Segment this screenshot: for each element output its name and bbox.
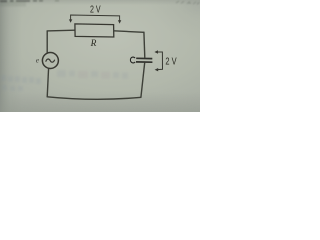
paper background — [0, 0, 200, 112]
wire: top rail right segment to corner — [114, 31, 144, 33]
bleed-through text bottom-left — [1, 75, 41, 91]
wire: right vertical lower — [141, 63, 145, 98]
top-right faint handwriting — [176, 1, 200, 4]
capacitor C bottom plate — [136, 61, 152, 63]
capacitor C top plate — [136, 57, 152, 59]
wire: top-left vertical (source to top rail) — [46, 31, 48, 54]
arrowhead down right — [118, 20, 121, 23]
wire: right vertical upper (to capacitor) — [143, 32, 146, 58]
arrowhead left bottom — [155, 68, 159, 71]
top-right corner shade — [0, 0, 1, 1]
voltage annotation bracket across C — [157, 52, 163, 70]
wire: bottom rail — [47, 97, 141, 100]
photo grain — [0, 0, 200, 112]
AC source circle — [42, 53, 58, 69]
arrowhead down left — [69, 19, 72, 22]
wire: top rail left segment to resistor — [47, 29, 75, 32]
arrowhead left top — [154, 50, 158, 53]
bleed-through text middle — [57, 70, 128, 79]
wire: bottom-left vertical (to source) — [47, 68, 48, 98]
AC source sine wave — [46, 59, 55, 62]
voltage annotation bracket across R — [71, 15, 120, 22]
circuit drawing — [36, 5, 177, 100]
capacitor label C — [130, 57, 135, 63]
resistor R (rectangle body) — [75, 24, 114, 37]
top edge cut-off print — [0, 0, 59, 7]
